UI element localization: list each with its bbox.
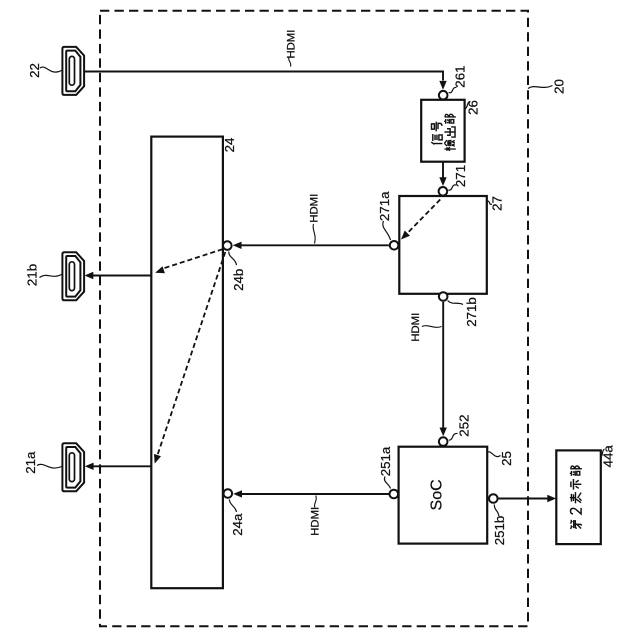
svg-text:24: 24 [222, 138, 237, 153]
leader 261 [449, 87, 457, 92]
svg-text:SoC: SoC [429, 479, 446, 510]
box 27 (repeater) [399, 196, 487, 294]
arrowhead into 261 [439, 81, 446, 90]
dashed route 24b to 21b exit [163, 249, 223, 268]
node 252 [439, 437, 448, 446]
node 24b [223, 241, 232, 250]
svg-text:44a: 44a [601, 445, 616, 468]
arrowhead into 271 [439, 177, 446, 186]
arrowhead into 44a [547, 495, 556, 502]
wire box24 to 21a [92, 465, 151, 467]
arrowhead into 21a [85, 463, 94, 470]
dashed route 24b to 21a exit [158, 252, 226, 455]
node 261 [439, 91, 448, 100]
box 24 (HDMI switch) [151, 137, 223, 589]
leader for 25 [487, 452, 500, 457]
leader HDMI top [289, 58, 291, 67]
connector 21a [62, 443, 84, 491]
leader for 44a [601, 449, 605, 457]
connector 21b [62, 252, 84, 300]
svg-text:HDMI: HDMI [308, 194, 320, 223]
box 26 (signal detector) [421, 100, 464, 162]
svg-text:26: 26 [466, 100, 481, 115]
leader for 22 [40, 67, 62, 72]
wire 26 to node 271 [442, 162, 444, 178]
node 271b [439, 292, 448, 301]
leader 251a [384, 477, 390, 489]
box 25 SoC [399, 447, 488, 544]
wire HDMI vertical 271b to node 252 [442, 302, 444, 433]
leader 24a [229, 500, 236, 513]
wire HDMI 251a to node 24a [241, 493, 389, 495]
svg-text:24a: 24a [230, 513, 245, 536]
svg-text:271a: 271a [377, 191, 392, 221]
leader for 27 [487, 201, 492, 204]
text 信号検出部 in box 26 [431, 114, 456, 151]
node 271a [390, 241, 399, 250]
leader 271a [383, 221, 391, 240]
node 251a [390, 490, 399, 499]
node 271 [439, 187, 448, 196]
leader for 21a [37, 464, 62, 468]
leader 271b [448, 301, 463, 305]
svg-text:HDMI: HDMI [286, 30, 298, 59]
svg-text:25: 25 [499, 451, 514, 466]
svg-text:251a: 251a [378, 446, 393, 476]
svg-text:261: 261 [453, 66, 468, 88]
arrowhead into 252 [440, 428, 447, 437]
arrowhead into 21b [85, 272, 94, 279]
svg-text:271b: 271b [464, 297, 479, 327]
svg-text:HDMI: HDMI [410, 313, 422, 342]
arrowhead into 24a [233, 490, 242, 497]
leader HDMI mid [313, 224, 315, 244]
box 44a second display [556, 450, 601, 544]
leader for 21b [40, 275, 62, 278]
svg-text:271: 271 [453, 165, 468, 187]
svg-text:24b: 24b [231, 269, 246, 291]
svg-text:HDMI: HDMI [310, 507, 322, 536]
svg-text:252: 252 [457, 415, 472, 437]
connector 22 [62, 47, 84, 95]
leader 271 [448, 185, 456, 190]
leader 252 [449, 433, 458, 440]
svg-text:21b: 21b [25, 264, 40, 286]
dashed route arrow 271 to 271a inside box 27 [407, 200, 440, 234]
node 24a [224, 489, 233, 498]
svg-text:20: 20 [552, 79, 567, 94]
wire box24 to 21b [92, 275, 151, 277]
wire HDMI 271a to node 24b [240, 244, 389, 246]
leader 24b [229, 252, 237, 266]
arrowhead into 24b [233, 242, 242, 249]
dashed enclosure box 20 [100, 11, 528, 627]
svg-text:22: 22 [27, 63, 42, 78]
leader 251b [494, 505, 499, 517]
wire 251b to box 44a [499, 498, 549, 500]
text 第2表示部 in box 44a [570, 466, 582, 529]
leader HDMI vertical [422, 326, 442, 328]
leader for 20 [528, 86, 553, 89]
svg-text:21a: 21a [23, 451, 38, 474]
svg-text:251b: 251b [492, 516, 507, 546]
svg-text:27: 27 [490, 196, 505, 211]
wire HDMI from 22 to node 261 [85, 72, 443, 81]
leader for 26 [465, 102, 470, 110]
node 251b [489, 494, 498, 503]
leader HDMI bottom [314, 496, 316, 508]
